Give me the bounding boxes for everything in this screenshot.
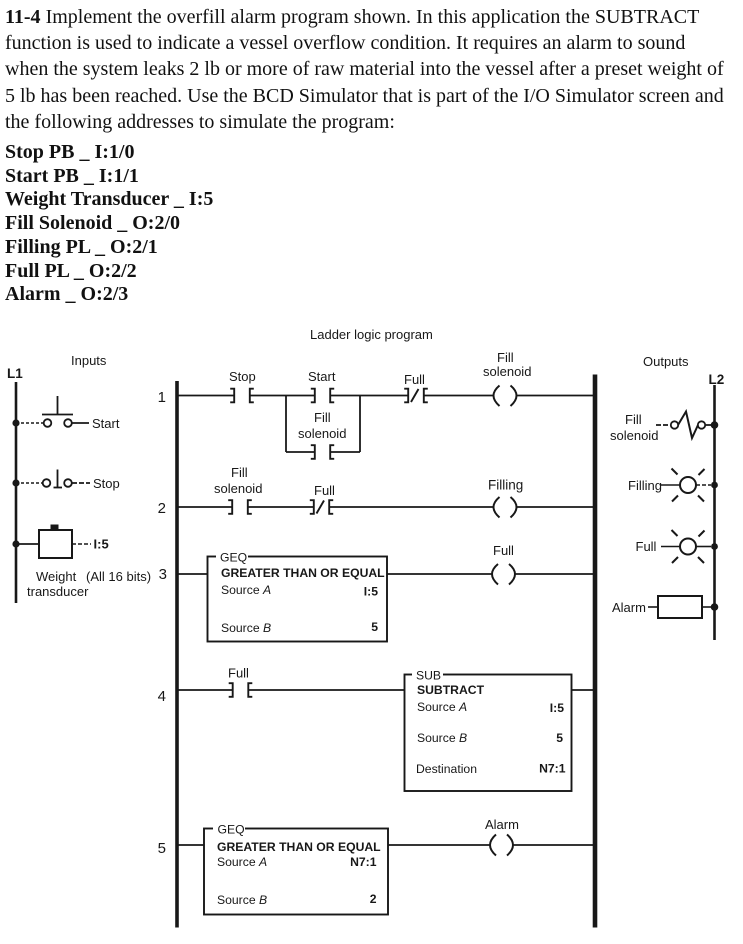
- contact Full (NC, XIO): [404, 389, 428, 403]
- ladder right rail: [593, 375, 598, 928]
- contact Full (NO): [229, 683, 253, 697]
- svg-text:Source B: Source B: [221, 621, 271, 635]
- svg-text:Full: Full: [636, 539, 657, 554]
- svg-text:transducer: transducer: [27, 584, 89, 599]
- svg-text:solenoid: solenoid: [298, 426, 346, 441]
- svg-text:I:5: I:5: [550, 701, 564, 715]
- svg-text:Source B: Source B: [217, 893, 267, 907]
- ladder left rail: [175, 381, 179, 928]
- svg-text:L1: L1: [7, 366, 23, 381]
- svg-text:Destination: Destination: [416, 762, 477, 776]
- svg-text:1: 1: [158, 389, 166, 406]
- pilot light Filling: [672, 469, 705, 502]
- contact Stop (NO, XIC): [230, 389, 254, 403]
- svg-text:Ladder logic program: Ladder logic program: [310, 327, 433, 342]
- wire coil to right rail: [515, 573, 595, 575]
- L2 power rail: [713, 385, 716, 640]
- coil Alarm: [490, 835, 513, 856]
- svg-text:2: 2: [158, 500, 166, 517]
- svg-text:N7:1: N7:1: [539, 762, 566, 776]
- coil Fill solenoid: [494, 386, 517, 407]
- alarm output box: [658, 596, 702, 618]
- svg-text:solenoid: solenoid: [483, 364, 531, 379]
- svg-text:SUBTRACT: SUBTRACT: [417, 683, 485, 697]
- wire L1 to start PB: [16, 422, 43, 424]
- wire coil to right rail: [513, 844, 595, 846]
- svg-text:Outputs: Outputs: [643, 354, 689, 369]
- wire GEQ to Full coil: [387, 573, 493, 575]
- svg-text:I:5: I:5: [94, 537, 109, 552]
- contact Fill solenoid (NO, branch): [311, 445, 334, 459]
- wire Filling label to lamp: [661, 484, 680, 486]
- svg-text:GEQ: GEQ: [218, 823, 245, 837]
- svg-text:Source A: Source A: [217, 855, 267, 869]
- svg-text:Fill: Fill: [497, 350, 514, 365]
- contact Fill solenoid (NO): [228, 500, 252, 514]
- branch bottom wire: [286, 451, 315, 453]
- wire lamp to L2: [696, 484, 711, 486]
- wire transducer to label: [72, 543, 91, 545]
- node: stop PB junction on L1: [12, 479, 19, 486]
- pilot light Full: [672, 530, 705, 563]
- contact Full (NC, XIO): [310, 500, 333, 514]
- svg-text:N7:1: N7:1: [350, 855, 377, 869]
- node: Filling junction on L2: [711, 482, 718, 489]
- branch right vertical: [359, 396, 361, 453]
- svg-text:solenoid: solenoid: [610, 428, 658, 443]
- node: start PB junction on L1: [12, 419, 19, 426]
- wire lamp to L2: [696, 546, 711, 548]
- node: Full junction on L2: [711, 543, 718, 550]
- svg-text:Stop: Stop: [229, 369, 256, 384]
- wire rung5 left: [178, 844, 204, 846]
- wire rung1 left: [178, 395, 234, 397]
- svg-text:Fill: Fill: [625, 412, 642, 427]
- svg-text:Inputs: Inputs: [71, 353, 107, 368]
- svg-text:GREATER THAN OR EQUAL: GREATER THAN OR EQUAL: [221, 566, 385, 580]
- svg-text:Source A: Source A: [417, 700, 467, 714]
- wire L1 to transducer: [16, 543, 39, 545]
- coil Full: [492, 564, 515, 585]
- weight transducer I:5 box: [39, 530, 72, 558]
- wire SUB to right rail: [572, 689, 595, 691]
- contact Start (NO, XIC): [311, 389, 334, 403]
- wire Full to coil: [424, 395, 494, 397]
- wire coil to right rail: [516, 506, 594, 508]
- svg-text:I:5: I:5: [364, 585, 378, 599]
- GEQ instruction box: [208, 557, 388, 642]
- svg-text:Source A: Source A: [221, 583, 271, 597]
- svg-text:5: 5: [371, 620, 378, 634]
- wire alarm box to L2: [702, 606, 711, 608]
- wire coil to right rail: [516, 395, 594, 397]
- wire Full to Filling coil: [329, 506, 494, 508]
- svg-text:Full: Full: [404, 372, 425, 387]
- svg-text:Filling: Filling: [488, 478, 523, 493]
- svg-text:4: 4: [158, 688, 166, 705]
- svg-text:GEQ: GEQ: [220, 551, 247, 565]
- node: solenoid junction on L2: [711, 421, 719, 429]
- svg-text:SUB: SUB: [416, 669, 441, 683]
- svg-text:5: 5: [556, 731, 563, 745]
- solenoid Fill symbol: [656, 412, 711, 439]
- wire L1 to stop PB: [16, 482, 43, 484]
- node: Alarm junction on L2: [711, 603, 719, 611]
- SUB instruction box: [405, 675, 572, 792]
- svg-text:3: 3: [159, 566, 167, 583]
- svg-text:Full: Full: [314, 483, 335, 498]
- wire Alarm label to box: [648, 606, 658, 608]
- svg-text:GREATER THAN OR EQUAL: GREATER THAN OR EQUAL: [217, 840, 381, 854]
- coil Filling: [494, 497, 517, 518]
- transducer top mark: [51, 525, 59, 530]
- svg-text:solenoid: solenoid: [214, 481, 262, 496]
- svg-text:(All 16 bits): (All 16 bits): [86, 569, 151, 584]
- L1 power rail: [15, 382, 18, 603]
- svg-text:Fill: Fill: [314, 410, 331, 425]
- node: transducer junction on L1: [12, 540, 19, 547]
- svg-text:Full: Full: [493, 543, 514, 558]
- wire GEQ2 to Alarm coil: [388, 844, 491, 846]
- svg-text:Alarm: Alarm: [612, 600, 646, 615]
- svg-text:2: 2: [370, 892, 377, 906]
- wire stop to branch: [250, 395, 315, 397]
- svg-text:L2: L2: [709, 372, 725, 387]
- wire rung4 left: [178, 689, 233, 691]
- wire Full to SUB box: [248, 689, 404, 691]
- svg-text:Filling: Filling: [628, 478, 662, 493]
- pushbutton Start (NO): [42, 396, 89, 427]
- svg-text:Weight: Weight: [36, 569, 77, 584]
- wire branch to Full contact: [330, 395, 408, 397]
- svg-text:Start: Start: [308, 369, 336, 384]
- GEQ instruction box 2: [204, 829, 388, 915]
- svg-text:Stop: Stop: [93, 476, 120, 491]
- svg-text:Alarm: Alarm: [485, 817, 519, 832]
- wire rung3 left: [178, 573, 208, 575]
- svg-text:Source B: Source B: [417, 731, 467, 745]
- svg-text:Fill: Fill: [231, 465, 248, 480]
- wire rung2 left: [178, 506, 232, 508]
- wire to Full NC: [248, 506, 314, 508]
- pushbutton Stop (NC): [43, 470, 90, 488]
- svg-text:Start: Start: [92, 416, 120, 431]
- wire Full label to lamp: [661, 546, 680, 548]
- svg-text:Full: Full: [228, 666, 249, 681]
- svg-text:5: 5: [158, 840, 166, 857]
- branch left vertical: [285, 396, 287, 453]
